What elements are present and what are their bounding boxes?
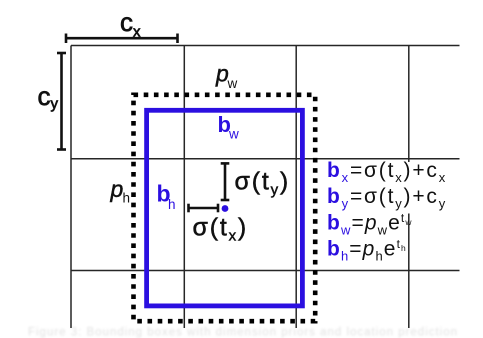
svg-text:σ(ty): σ(ty) [235,168,291,199]
white backing of equation lines 1-2 [326,162,448,214]
sigma(t_y) vertical bracket [221,163,230,200]
svg-text:Figure 3: Bounding boxes with: Figure 3: Bounding boxes with dimension … [28,327,458,338]
grid horizontal line 2 [71,158,460,160]
faint cropped caption remnant [28,327,458,338]
grid vertical line 4 [408,46,410,329]
svg-text:bh=pheth: bh=pheth [327,237,407,264]
grid horizontal line 3 [71,270,460,272]
grid vertical line 3 [295,46,297,329]
grid horizontal line 1 [71,45,460,47]
svg-text:p: p [110,176,124,202]
svg-text:σ(tx): σ(tx) [193,214,249,245]
svg-text:bw=pwetw: bw=pwetw [327,211,413,238]
c_x measurement bracket [66,34,178,44]
svg-text:w: w [228,127,239,142]
prior anchor box (dotted) [134,95,316,321]
c_y measurement bracket [57,53,66,150]
grid vertical line 2 [183,46,185,329]
svg-text:h: h [123,191,131,206]
white backing of equation lines 3-4 [326,214,406,264]
predicted bounding box (blue) [147,110,303,306]
box center dot (blue) [222,205,229,212]
sigma(t_x) horizontal bracket [189,204,219,213]
grid vertical line 1 [70,46,72,329]
svg-text:h: h [168,197,176,212]
svg-text:w: w [227,76,238,91]
